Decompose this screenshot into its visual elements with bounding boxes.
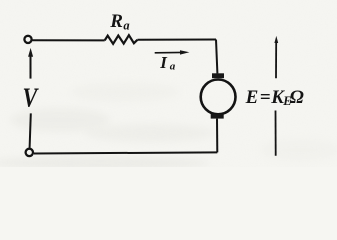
scan smudge bottom band	[0, 156, 210, 170]
scan grain overlay	[0, 0, 1, 1]
arrow V (upper shaft)	[30, 55, 32, 79]
terminal T1 (top-left input terminal)	[24, 36, 31, 43]
arrow E (lower shaft)	[275, 111, 277, 156]
scan smudge left-middle	[10, 108, 110, 132]
scan smudge right-bottom	[260, 139, 337, 161]
motor M bottom brush block	[211, 114, 224, 119]
arrow E (EMF direction arrow, upper shaft)	[275, 41, 277, 78]
arrow V (voltage direction arrow, lower shaft)	[30, 113, 31, 147]
motor M top brush block	[212, 73, 224, 78]
resistor Ra (zigzag)	[105, 35, 138, 44]
wire: motor bottom down to corner	[216, 119, 218, 153]
scan smudge center mid	[70, 82, 180, 102]
wire: top rail right of resistor to corner	[137, 39, 216, 41]
arrow Ia (armature current arrow)	[155, 51, 183, 53]
background paper	[0, 0, 337, 167]
scan smudge center-bottom	[85, 124, 215, 142]
arrow E head	[274, 36, 278, 43]
wire: bottom rail	[34, 152, 217, 153]
arrow V head	[28, 48, 33, 57]
terminal T2 (bottom-left input terminal)	[26, 149, 33, 156]
motor M (DC machine armature circle)	[201, 80, 236, 115]
wire: right side, corner down to motor top brush	[216, 40, 217, 74]
wire: top rail left of resistor	[32, 39, 104, 41]
arrow Ia head	[180, 50, 189, 54]
